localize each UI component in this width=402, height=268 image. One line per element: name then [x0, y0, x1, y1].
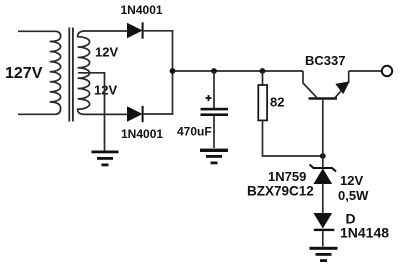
capacitor C1 plates: [201, 108, 229, 116]
svg-text:12V: 12V: [94, 83, 117, 98]
wire diode D1 to corner and down to node A: [143, 31, 173, 71]
svg-text:1N4148: 1N4148: [340, 225, 389, 241]
svg-text:0,5W: 0,5W: [338, 188, 369, 203]
svg-text:BZX79C12: BZX79C12: [247, 184, 314, 199]
wire secondary bottom to diode D2: [85, 113, 128, 115]
resistor R1 body: [258, 85, 267, 120]
node C junction dot (resistor): [260, 68, 266, 74]
transistor Q1 base bar: [309, 97, 338, 99]
label BZX79C12: [247, 184, 314, 199]
diode D3 1N4148 cathode bar: [314, 229, 335, 231]
svg-text:12V: 12V: [95, 45, 118, 60]
svg-text:1N4001: 1N4001: [121, 3, 163, 17]
node B junction dot (capacitor): [211, 68, 217, 74]
label 0,5W: [338, 188, 369, 203]
diode D1 1N4001 top: [128, 22, 143, 38]
diode D2 1N4001 bottom: [128, 106, 143, 122]
zener ZD1 cathode bar with ticks: [310, 165, 337, 172]
label 82: [270, 95, 284, 110]
svg-text:1N4001: 1N4001: [121, 127, 163, 141]
wire diode D3 to ground: [322, 231, 324, 247]
node D junction dot: [320, 153, 326, 159]
wire zener ZD1 to diode D3: [322, 184, 324, 214]
transformer T1 primary lead top: [18, 30, 55, 32]
zener ZD1 anode triangle: [314, 169, 331, 183]
transformer center tap wire: [78, 73, 105, 151]
transformer T1 core: [69, 28, 73, 122]
wire emitter to output terminal: [349, 70, 382, 72]
svg-text:470uF: 470uF: [177, 125, 212, 139]
svg-text:12V: 12V: [340, 173, 363, 188]
capacitor C1 polarity plus: [206, 95, 212, 101]
label 12V zener: [340, 173, 363, 188]
transistor Q1 emitter arrow: [336, 82, 349, 93]
label 1N4001 top: [121, 3, 163, 17]
ground center tap: [92, 151, 119, 167]
transformer T1 primary lead bottom: [18, 113, 55, 115]
svg-text:1N759: 1N759: [268, 169, 306, 184]
transistor Q1 emitter wire: [335, 71, 349, 98]
ground bottom right: [310, 247, 338, 262]
wire node B to capacitor C1: [213, 71, 215, 108]
label D: [346, 211, 356, 227]
svg-text:127V: 127V: [5, 65, 43, 82]
node A junction dot: [170, 68, 176, 74]
transistor Q1 collector wire: [303, 71, 317, 97]
label 1N759: [268, 169, 306, 184]
output terminal circle: [382, 66, 392, 76]
transformer T1 primary winding: [50, 31, 61, 114]
label 1N4001 bottom: [121, 127, 163, 141]
wire node C to resistor R1: [262, 71, 264, 85]
wire capacitor C1 to ground: [213, 116, 215, 148]
ground capacitor: [200, 149, 228, 165]
diode D3 1N4148 triangle: [314, 214, 331, 228]
wire resistor R1 bottom to node D: [263, 121, 323, 157]
svg-text:82: 82: [270, 95, 284, 110]
wire diode D2 to corner and up to node A: [143, 71, 173, 114]
wire secondary top to diode D1: [85, 30, 128, 32]
label 127V: [5, 65, 43, 82]
label BC337: [305, 53, 345, 68]
label 12V lower: [94, 83, 117, 98]
transistor Q1 base wire to node D: [322, 100, 324, 156]
wire node D to zener ZD1: [322, 156, 324, 167]
label 1N4148: [340, 225, 389, 241]
label 470uF: [177, 125, 212, 139]
transformer T1 secondary winding: [78, 31, 90, 114]
label 12V upper: [95, 45, 118, 60]
main rail wire node A to transistor: [173, 70, 304, 72]
svg-text:BC337: BC337: [305, 53, 345, 68]
